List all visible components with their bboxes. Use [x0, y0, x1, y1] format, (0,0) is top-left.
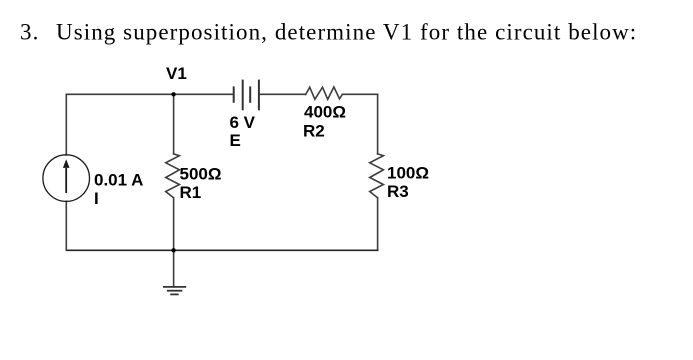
wire middle bottom (R1 to bottom node) [173, 198, 175, 251]
wire middle top (node V1 to R1) [173, 94, 175, 154]
resistor R3 zigzag [370, 154, 384, 198]
battery E long plate 2 (positive) [258, 80, 260, 111]
svg-text:R3: R3 [387, 182, 409, 201]
bottom node dot [171, 248, 175, 252]
svg-text:R1: R1 [180, 183, 202, 202]
wire top left (node V1 to left corner) [67, 93, 174, 95]
current source I arrow shaft [65, 168, 67, 193]
ground bar bottom (narrowest) [170, 293, 178, 295]
svg-text:Using superposition, determine: Using superposition, determine V1 for th… [56, 20, 637, 45]
svg-text:3.: 3. [20, 20, 39, 45]
resistor R1 zigzag [166, 154, 180, 198]
svg-text:100Ω: 100Ω [387, 163, 429, 182]
wire left bottom (current source to corner) [65, 201, 67, 250]
svg-text:I: I [94, 189, 99, 208]
wire right bottom (R3 to bottom corner) [377, 198, 379, 251]
current source I arrowhead [63, 159, 70, 168]
node V1 dot [171, 92, 175, 96]
wire top (node V1 to battery) [174, 93, 234, 95]
wire left top (corner to current source) [65, 94, 67, 155]
ground bar top (widest) [163, 286, 186, 288]
resistor R2 zigzag [306, 87, 343, 99]
wire battery to R2 [259, 93, 305, 95]
svg-text:R2: R2 [303, 122, 325, 141]
svg-text:V1: V1 [166, 64, 187, 83]
ground bar middle [167, 290, 182, 292]
svg-text:400Ω: 400Ω [304, 103, 346, 122]
battery E short plate 2 (negative) [249, 86, 251, 102]
battery E short plate 1 (negative) [233, 86, 235, 102]
wire ground stem [173, 250, 175, 286]
svg-text:500Ω: 500Ω [180, 164, 222, 183]
wire bottom [67, 249, 378, 251]
svg-text:0.01 A: 0.01 A [94, 171, 143, 190]
svg-text:6 V: 6 V [230, 113, 256, 132]
wire right top (corner to R3) [377, 94, 379, 154]
wire R2 to right corner [342, 93, 377, 95]
battery E long plate 1 (positive) [242, 80, 244, 111]
svg-text:E: E [230, 131, 241, 150]
current source I circle [43, 155, 90, 202]
